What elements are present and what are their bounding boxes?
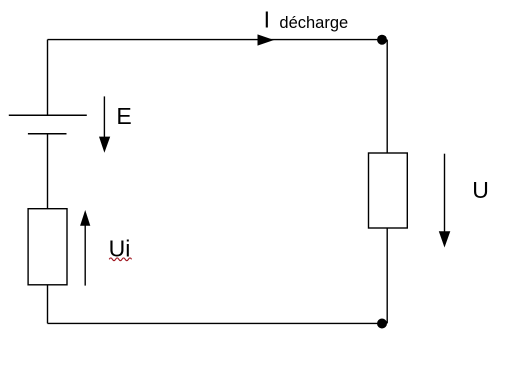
arrow U (pointing down) (439, 154, 451, 248)
wire: left vertical middle (battery to resistor Ui) (47, 134, 49, 209)
wire: right vertical lower (resistor U to node B) (386, 228, 388, 323)
battery E: short plate (28, 133, 67, 135)
battery E: long plate (9, 114, 87, 116)
svg-text:Ui: Ui (109, 236, 131, 262)
spellcheck squiggle under Ui (109, 258, 131, 261)
arrow E (emf, pointing down) (99, 96, 110, 152)
resistor Ri (internal resistance, voltage Ui) (28, 209, 67, 285)
svg-text:U: U (472, 177, 489, 203)
node B: bottom-right junction dot (377, 319, 387, 329)
wire: bottom horizontal (node B to battery -) (48, 322, 383, 324)
current arrow I décharge (arrowhead on top wire) (258, 34, 275, 45)
arrow Ui (pointing up) (80, 210, 90, 286)
svg-text:décharge: décharge (279, 14, 348, 32)
wire: right vertical upper (node A to resistor U) (386, 40, 388, 153)
wire: top horizontal (battery + to node A) (48, 39, 383, 41)
wire: left vertical top (top wire to battery plate) (47, 40, 49, 116)
wire: left vertical bottom (resistor Ui to bottom wire) (47, 285, 49, 324)
svg-text:I: I (264, 7, 270, 33)
svg-text:E: E (116, 103, 131, 129)
resistor R (load, voltage U) (369, 153, 408, 228)
node A: top-right junction dot (377, 35, 387, 45)
